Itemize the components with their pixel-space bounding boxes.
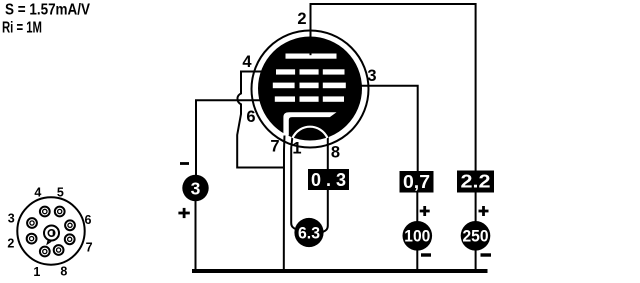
svg-text:S = 1.57mA/V: S = 1.57mA/V <box>5 2 91 19</box>
svg-text:2: 2 <box>297 10 306 28</box>
svg-text:8: 8 <box>331 144 340 162</box>
svg-text:4: 4 <box>242 53 252 71</box>
svg-text:0.3: 0.3 <box>311 170 346 190</box>
svg-text:5: 5 <box>57 186 64 200</box>
svg-text:250: 250 <box>463 228 489 246</box>
svg-text:8: 8 <box>60 265 67 279</box>
svg-text:1: 1 <box>292 140 301 158</box>
svg-text:1: 1 <box>33 265 40 279</box>
svg-text:3: 3 <box>191 179 201 199</box>
svg-text:6: 6 <box>85 213 92 227</box>
svg-text:7: 7 <box>270 138 279 156</box>
svg-text:3: 3 <box>367 67 376 85</box>
svg-text:7: 7 <box>86 241 93 255</box>
svg-text:6.3: 6.3 <box>298 225 320 243</box>
svg-text:100: 100 <box>404 228 430 246</box>
svg-text:3: 3 <box>8 212 15 226</box>
svg-text:2: 2 <box>7 237 14 251</box>
svg-text:Ri = 1M: Ri = 1M <box>2 20 42 37</box>
svg-text:6: 6 <box>246 108 255 126</box>
svg-text:0,7: 0,7 <box>403 172 430 192</box>
svg-text:4: 4 <box>34 186 41 200</box>
svg-text:2.2: 2.2 <box>461 172 491 192</box>
